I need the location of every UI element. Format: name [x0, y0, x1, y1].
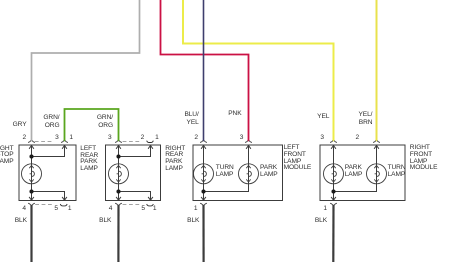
bulb turn lamp (right front): [367, 164, 387, 184]
internal arrows right front lamp module: [331, 145, 379, 200]
label wire GRN/ORG (left): [43, 114, 59, 129]
connector dashes top right rear park lamp: [123, 141, 140, 143]
label left front lamp module: [284, 145, 312, 172]
pin number 1 bottom right front lamp module: [323, 206, 327, 213]
pin number 1 bottom right rear park lamp: [153, 206, 157, 213]
label wire BLK (right front): [315, 218, 327, 225]
lamp box left rear park lamp: [19, 145, 76, 201]
label wire BLK (left rear): [15, 218, 27, 225]
pin number 2 top right rear park lamp: [141, 135, 145, 142]
pin number 5 bottom left rear park lamp: [54, 206, 58, 213]
junction dot left front lamp module: [201, 189, 205, 193]
internal wiring right front lamp module: [334, 145, 377, 201]
internal wiring right rear park lamp: [119, 145, 151, 201]
internal wiring left front lamp module: [204, 145, 249, 201]
junction dot right front lamp module: [331, 189, 335, 193]
connector dashes top left rear park lamp: [35, 141, 53, 143]
internal arrows right rear park lamp: [116, 145, 153, 200]
pin number 1 top left rear park lamp: [69, 135, 73, 142]
label wire BLU/YEL: [184, 111, 198, 126]
connector pin 2 of right front lamp module (YEL/BRN): [373, 141, 380, 143]
label wire BLK (left front): [187, 218, 199, 225]
lamp box right rear park lamp: [106, 145, 161, 201]
pin number 3 top left rear park lamp: [55, 135, 59, 142]
pin number 2 top left rear park lamp: [23, 135, 27, 142]
bulb park lamp (right front): [324, 164, 344, 184]
pin number 3 top right front lamp module: [320, 135, 324, 142]
pin number 1 bottom left rear park lamp: [68, 206, 72, 213]
empty cavity bracket pin 2 top of right rear park lamp: [147, 141, 154, 143]
label right stop lamp (cut off at edge): [0, 146, 14, 166]
connector pin 2 of left front lamp module (BLU/YEL): [200, 141, 207, 143]
internal arrows left front lamp module: [201, 145, 251, 200]
wire YEL (to right front lamp module pin 3): [183, 0, 334, 141]
pin number 4 bottom right rear park lamp: [109, 206, 113, 213]
junction dots right rear park lamp: [116, 154, 120, 193]
wire PNK (crimson, to left front lamp module pin 3): [161, 0, 249, 141]
label wire GRN/ORG (right): [97, 114, 113, 129]
connector pin 1 + wire BLK below right front lamp module: [330, 203, 337, 262]
label park lamp (left front): [260, 164, 278, 180]
pin number 3 top left front lamp module: [240, 135, 244, 142]
connector pin 3 of right rear park lamp (GRN/ORG): [115, 141, 122, 143]
label wire PNK: [228, 111, 241, 118]
lamp box right front lamp module: [320, 145, 405, 201]
label wire YEL: [317, 114, 329, 121]
label left rear park lamp: [80, 146, 98, 173]
pin number 3 top right rear park lamp: [108, 135, 112, 142]
connector pin 4 + wire BLK below left rear park lamp: [28, 203, 35, 262]
pin number 4 bottom left rear park lamp: [22, 206, 26, 213]
connector dashes bottom left rear park lamp: [35, 203, 53, 205]
label wire GRY: [13, 122, 27, 129]
connector dashes bottom right rear park lamp: [123, 203, 142, 205]
empty cavity bracket pin 5 bottom of left rear park lamp: [60, 204, 67, 206]
bulb park lamp (left front): [239, 164, 259, 184]
connector pin 4 + wire BLK below right rear park lamp: [115, 203, 122, 262]
connector pin 3 of left rear park lamp (GRN/ORG): [61, 141, 68, 143]
pin number 1 bottom left front lamp module: [194, 206, 198, 213]
pin number 1 top right rear park lamp: [155, 135, 159, 142]
connector pin 3 of left front lamp module (PNK): [245, 141, 252, 143]
wire YEL/BRN (to right front lamp module pin 2): [376, 0, 378, 141]
internal wiring left rear park lamp: [32, 145, 65, 201]
junction dots left rear park lamp: [29, 154, 33, 193]
label wire BLK (right rear): [99, 218, 111, 225]
label right rear park lamp: [165, 146, 185, 173]
lamp box left front lamp module: [193, 145, 282, 201]
bulb left rear park lamp: [22, 164, 42, 184]
label park lamp (right front): [345, 164, 363, 180]
pin number 5 bottom right rear park lamp: [141, 206, 145, 213]
wire BLU/YEL (to left front lamp module pin 2): [203, 0, 205, 141]
connector pin 3 of right front lamp module (YEL): [330, 141, 337, 143]
label turn lamp (right front): [388, 164, 406, 180]
connector pin 2 of left rear park lamp (GRY): [28, 141, 35, 143]
label turn lamp (left front): [216, 164, 234, 180]
pin number 2 top right front lamp module: [356, 135, 360, 142]
pin number 2 top left front lamp module: [194, 135, 198, 142]
connector pin 1 + wire BLK below left front lamp module: [200, 203, 207, 262]
internal arrows left rear park lamp: [29, 145, 67, 200]
wire GRN/ORG (links rear park lamps pin 3 to pin 3): [65, 109, 119, 141]
wire GRY (to right stop lamp pin 2): [32, 0, 140, 141]
bulb turn lamp (left front): [194, 164, 214, 184]
label wire YEL/BRN: [359, 111, 373, 126]
label right front lamp module: [410, 145, 438, 172]
bulb right rear park lamp: [109, 164, 129, 184]
empty cavity bracket pin 5 bottom of right rear park lamp: [147, 204, 154, 206]
